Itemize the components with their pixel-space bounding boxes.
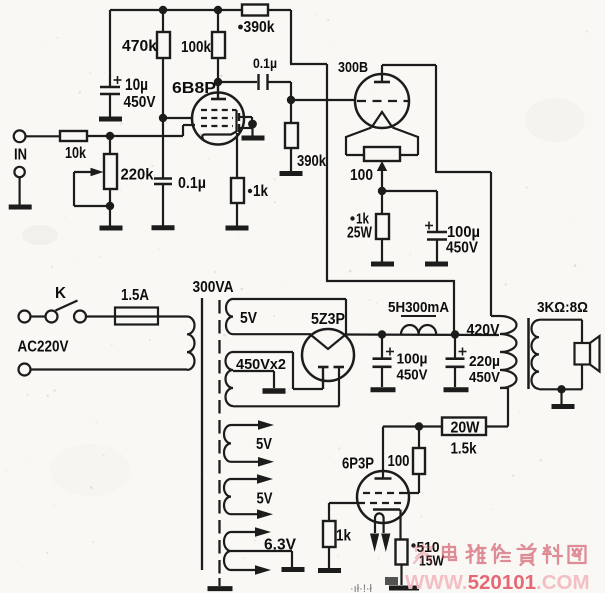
svg-text:WWW.520101.COM: WWW.520101.COM [405, 571, 590, 593]
svg-text:450V: 450V [446, 240, 479, 257]
svg-text:100: 100 [350, 167, 373, 184]
svg-text:0.1µ: 0.1µ [178, 175, 206, 192]
svg-text:100µ: 100µ [447, 224, 480, 241]
svg-text:20W: 20W [451, 420, 480, 437]
svg-text:5V: 5V [240, 310, 257, 327]
svg-text:10k: 10k [65, 145, 86, 162]
svg-text:100µ: 100µ [397, 351, 428, 368]
svg-text:AC220V: AC220V [18, 339, 70, 356]
svg-text:1k: 1k [253, 183, 268, 200]
svg-text:450V: 450V [124, 94, 157, 111]
svg-text:390k: 390k [297, 153, 326, 170]
svg-text:450V: 450V [397, 367, 428, 384]
svg-text:5H300mA: 5H300mA [388, 299, 449, 316]
svg-text:5Z3P: 5Z3P [311, 311, 345, 328]
svg-text:220µ: 220µ [469, 353, 500, 370]
svg-text:K: K [55, 285, 66, 302]
svg-text:IN: IN [14, 147, 27, 164]
svg-text:1.5k: 1.5k [451, 441, 477, 458]
svg-text:0.1µ: 0.1µ [253, 56, 277, 71]
svg-text:100: 100 [388, 453, 410, 470]
svg-text:5V: 5V [257, 491, 274, 508]
svg-text:300VA: 300VA [193, 279, 234, 296]
svg-text:390k: 390k [244, 19, 275, 36]
svg-text:1.5A: 1.5A [121, 287, 149, 304]
svg-text:10µ: 10µ [125, 75, 148, 94]
svg-text:100k: 100k [181, 39, 211, 56]
svg-text:3KΩ:8Ω: 3KΩ:8Ω [537, 299, 588, 316]
svg-text:6P3P: 6P3P [342, 456, 374, 473]
svg-text:450Vx2: 450Vx2 [236, 356, 286, 373]
svg-text:6.3V: 6.3V [264, 537, 297, 554]
svg-text:1k: 1k [336, 528, 351, 545]
svg-text:470k: 470k [122, 38, 157, 55]
svg-text:25W: 25W [347, 225, 372, 242]
svg-text:6B8P: 6B8P [172, 80, 216, 97]
svg-text:5V: 5V [256, 436, 273, 453]
svg-text:300B: 300B [338, 59, 368, 76]
svg-text:·ıł·!·ł: ·ıł·!·ł [350, 583, 373, 593]
svg-text:450V: 450V [469, 369, 500, 386]
svg-text:220k: 220k [121, 167, 154, 184]
svg-text:420V: 420V [467, 322, 501, 339]
